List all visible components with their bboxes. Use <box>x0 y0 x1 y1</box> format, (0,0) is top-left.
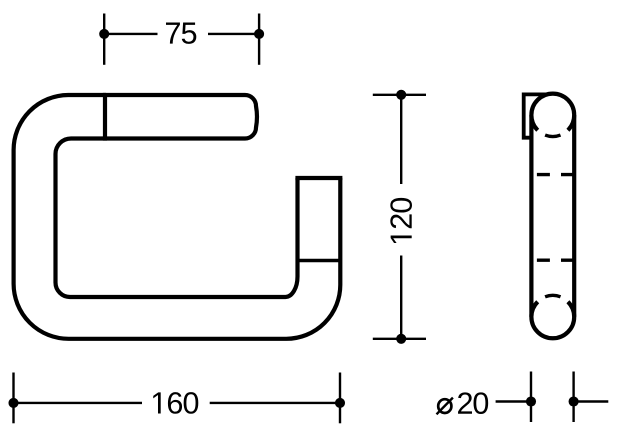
dim d20: right extension line <box>572 372 574 423</box>
dim 120: bottom extension line <box>373 338 426 340</box>
dim 160: right dot <box>335 398 345 408</box>
front view: bent tube outer contour <box>14 95 341 339</box>
dim d20: label <box>458 392 488 414</box>
dim 160: left extension line <box>12 373 14 424</box>
dim 75: left extension line <box>103 14 105 65</box>
dim 75: right extension line <box>258 14 260 65</box>
side view: top sphere hidden dashed arc <box>545 135 560 136</box>
side view: right edge <box>572 115 576 317</box>
dim 160: dimension line segments <box>14 402 341 404</box>
front view: inner contour <box>56 139 298 298</box>
dim 120: bottom dot <box>396 334 406 344</box>
dim 75: label <box>166 23 196 44</box>
dim 120: top dot <box>396 90 406 100</box>
side view: upper hidden joint dashes <box>537 173 574 176</box>
dim d20: diameter symbol <box>438 399 451 413</box>
dim 160: right extension line <box>339 373 341 424</box>
front view: joint line on right piece <box>298 259 341 263</box>
dim 75: dimension line segments <box>104 33 259 35</box>
dim 120: top extension line <box>373 94 426 96</box>
side view: top sphere circle (solid arc) <box>531 94 574 131</box>
front view: right piece flat top <box>298 176 341 180</box>
front view: top bar with rounded end cap and joint line <box>105 95 257 139</box>
dim d20: right dot <box>569 396 579 406</box>
dim 120: label (rotated) <box>390 198 412 243</box>
dim d20: left dot <box>526 396 536 406</box>
side view: lower hidden joint dashes <box>537 259 574 262</box>
side view: bottom sphere hidden dashed arc <box>545 295 560 296</box>
side view: stadium body fill <box>531 94 574 338</box>
dim 160: label <box>153 392 198 414</box>
side view: wall plate <box>524 94 553 137</box>
side view: left edge <box>529 115 533 317</box>
dim d20: left extension line <box>530 372 532 423</box>
dim 160: left dot <box>8 398 18 408</box>
dim 75: left dot <box>99 29 109 39</box>
side view: bottom sphere circle (solid arc) <box>531 302 574 339</box>
dim 120: dimension line segments <box>400 95 402 339</box>
dim d20: dimension line segments <box>496 400 609 402</box>
dim 75: right dot <box>254 29 264 39</box>
